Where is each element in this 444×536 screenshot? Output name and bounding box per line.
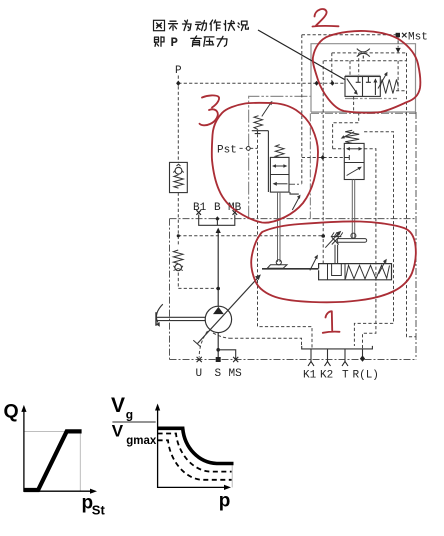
servo arrow left (310, 258, 317, 271)
valve3 spring seat link (267, 131, 269, 192)
valve2 top ports (350, 53, 359, 77)
valve3 pilot spring (254, 116, 263, 130)
servo piston cylinder (319, 264, 392, 280)
svg-text:Q: Q (4, 401, 19, 423)
graph2 dashed curve 2 (158, 440, 232, 480)
junction dots/diamonds (176, 33, 401, 238)
lever plate (337, 239, 366, 243)
valve3 pilot adjust arrow (262, 104, 271, 117)
valve4 port stub (344, 155, 349, 160)
red digit 3 (200, 95, 220, 125)
char 力 (217, 36, 227, 46)
fulcrum arrow (325, 234, 338, 248)
valve4 top cell double arrow (348, 148, 360, 150)
svg-text:gmax: gmax (126, 435, 157, 447)
char 有 (191, 36, 201, 47)
P pilot line horizontal (178, 82, 345, 84)
lever fulcrum pivot (332, 237, 339, 244)
char 作 (210, 20, 221, 30)
pump outlet to S (217, 333, 219, 360)
K ports manifold (302, 346, 373, 349)
valve2 right cell up arrow (374, 82, 376, 96)
svg-text:Mst: Mst (408, 32, 428, 44)
case drain curve from pump (213, 333, 230, 338)
red digit 1 (323, 311, 340, 333)
servo spring (346, 265, 390, 279)
char 示 (169, 21, 178, 30)
orifice symbol on sensing rail (357, 49, 370, 61)
svg-text:T: T (342, 370, 349, 382)
valve4 spring chamber drain (354, 132, 393, 346)
Mst branch vertical (301, 35, 303, 185)
link to servo piston (262, 268, 319, 270)
Mst plugged port X (402, 33, 407, 38)
svg-text:g: g (126, 408, 133, 422)
valve3 spool rod (278, 192, 281, 262)
drain to pump line (178, 287, 218, 289)
Pst pilot stub (240, 147, 258, 149)
valve2 sensing box top rail with orifice (332, 52, 407, 54)
valve4 spool rod (352, 180, 354, 238)
valve2 spring (380, 80, 398, 94)
valve3 top cell double arrow (274, 165, 285, 167)
svg-text:St: St (92, 503, 106, 518)
svg-text:K2: K2 (320, 370, 333, 382)
valve4 right pilot to R(L) (363, 149, 376, 349)
red circle 2 (313, 31, 421, 113)
svg-text:B1: B1 (193, 202, 207, 214)
case drain curve to U (199, 331, 207, 358)
lever anchor (hatched) (331, 236, 342, 238)
shaft rotation arrow (156, 304, 162, 322)
valve2 bottom port (353, 96, 355, 113)
feedback post (335, 245, 338, 264)
svg-text:R(L): R(L) (353, 370, 379, 382)
valve3 body (270, 157, 289, 192)
valve4 port pilot from gallery (302, 157, 345, 159)
char 况 (238, 21, 248, 30)
relief valve body (170, 162, 188, 192)
valve2 left cell blocked port (356, 77, 361, 83)
svg-text:B: B (214, 202, 221, 214)
feedback shoe (267, 265, 287, 269)
char 压 (204, 37, 214, 47)
pump flow triangle (213, 307, 224, 314)
graph2 thick curve (158, 428, 234, 463)
Pst port circle (246, 147, 250, 151)
svg-text:P: P (171, 36, 179, 50)
valve4 spring (345, 130, 359, 143)
servo arrow right (379, 262, 385, 274)
pump unit enclosure frame (chain line) (170, 112, 417, 360)
case drain to K1 manifold (230, 338, 302, 346)
svg-text:P: P (175, 65, 182, 77)
svg-text:S: S (215, 368, 222, 380)
Mst drop arrow line (397, 35, 399, 48)
control valve housing box A (top right, gray) (311, 44, 416, 114)
svg-text:p: p (219, 491, 231, 512)
pump drive shaft (156, 317, 206, 320)
svg-text:MS: MS (229, 368, 243, 380)
char 图 (154, 20, 165, 30)
valve3 pilot spring seat (252, 131, 269, 134)
drain check spring (173, 250, 183, 264)
graph1 gridlines (24, 431, 80, 491)
MB port X (233, 210, 238, 215)
char 动 (196, 21, 207, 31)
pump housing boundary box B (gray chain) (249, 96, 397, 218)
svg-text:V: V (111, 394, 125, 417)
port marks (197, 357, 348, 366)
spring chamber dashed box (396, 61, 407, 91)
graph1 axes (24, 409, 93, 491)
red digit 2 (313, 9, 339, 26)
pump outlet line up (217, 233, 219, 307)
graph2 axes (158, 408, 227, 488)
svg-text:V: V (112, 422, 124, 441)
valve4 pilot loop (333, 113, 359, 148)
char 即 (155, 37, 165, 47)
feedback shoe ball (276, 260, 281, 265)
gallery vertical to servo piston (322, 61, 324, 264)
char 为 (183, 20, 192, 30)
piston head with slot (328, 264, 346, 280)
valve2 adjust arrow (378, 75, 386, 89)
mechanical feedback chain from valve 3 (289, 183, 301, 185)
char 状 (224, 21, 235, 31)
second rail (324, 60, 407, 62)
valve4 rod ball (351, 233, 356, 238)
graph2 dashed curve 1 (158, 434, 232, 472)
relief ball and seat (175, 167, 182, 174)
valve2 left cell flow arrow (347, 79, 357, 93)
swashplate arrow (198, 278, 258, 344)
pilot spring tap line (258, 134, 313, 349)
Mst pilot line (302, 34, 397, 36)
valve3 bottom cell arrow (275, 183, 288, 185)
valve2 body (345, 75, 380, 96)
graph2 gray vertical (231, 464, 233, 488)
red circle 3 (212, 103, 318, 223)
svg-text:Pst: Pst (217, 145, 237, 157)
B1 port X (196, 210, 201, 215)
branch to MS (218, 350, 236, 360)
drain gallery horizontal (178, 235, 323, 237)
valve4 body (344, 143, 364, 179)
red circle 1 (251, 221, 416, 302)
valve3 max stop adjuster (290, 192, 299, 194)
valve4 bottom cell arrow (347, 168, 360, 176)
valve3 spool spring (275, 145, 284, 158)
P line vertical through relief (177, 76, 179, 289)
B1/B/MB manifold (199, 215, 235, 226)
pump circle (205, 306, 231, 332)
svg-text:U: U (196, 368, 203, 380)
B manifold down arrow (216, 228, 221, 233)
svg-text:K1: K1 (303, 370, 317, 382)
valve4 adjust arrow (344, 132, 355, 138)
relief spring (174, 175, 183, 188)
valve2 right cell blocked port (366, 77, 371, 83)
graph1 curve (24, 431, 82, 490)
drain check valve ball (175, 264, 182, 271)
